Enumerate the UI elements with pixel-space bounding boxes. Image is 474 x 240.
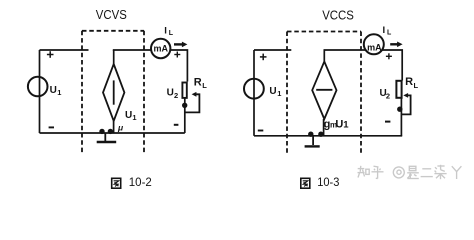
label gmU1 xyxy=(324,118,350,130)
svg-text:U: U xyxy=(167,88,174,99)
svg-text:1: 1 xyxy=(277,89,281,98)
丫 xyxy=(452,166,462,171)
voltage source U1 xyxy=(244,79,264,99)
polarity + of U1 xyxy=(47,51,54,58)
ammeter mA xyxy=(151,39,170,58)
ground xyxy=(305,136,320,147)
svg-text:VCVS: VCVS xyxy=(96,8,127,22)
svg-text:U: U xyxy=(335,118,343,130)
voltage-source bar inside diamond xyxy=(113,80,115,104)
乎 xyxy=(374,165,379,168)
二 xyxy=(422,168,431,170)
wire: input top (source to port) xyxy=(40,49,89,51)
svg-text:I: I xyxy=(164,26,167,37)
wire: bottom rail xyxy=(40,132,185,134)
wire: resistor bottom to bottom rail xyxy=(184,99,186,134)
polarity - of U1 xyxy=(49,126,54,128)
svg-text:R: R xyxy=(194,77,202,89)
@ xyxy=(393,167,404,178)
junction dot (U2 tap) xyxy=(397,107,402,112)
svg-text:2: 2 xyxy=(386,91,390,100)
wire: ammeter to top-right corner, down to resistor xyxy=(170,50,188,82)
polarity + of U1 xyxy=(260,54,267,61)
svg-text:U: U xyxy=(50,85,57,96)
label U1 (controlled source value) xyxy=(125,110,137,122)
polarity - of U2 xyxy=(385,121,390,123)
svg-text:1: 1 xyxy=(343,120,349,131)
dashed two-port box (VCCS network boundary) xyxy=(287,32,361,155)
wire: diamond top stub to node xyxy=(323,50,325,62)
ground xyxy=(97,133,117,142)
svg-text:U: U xyxy=(125,110,132,121)
ammeter mA xyxy=(364,34,384,54)
svg-text:10-3: 10-3 xyxy=(317,175,339,189)
label U2 xyxy=(380,88,391,100)
svg-text:10-2: 10-2 xyxy=(129,175,152,189)
wire: node to ammeter xyxy=(324,49,366,51)
wire: left vertical through source xyxy=(39,50,41,133)
svg-text:L: L xyxy=(202,81,207,90)
柒 xyxy=(435,167,437,169)
polarity - of U1 xyxy=(258,130,264,132)
svg-text:mA: mA xyxy=(153,44,168,54)
label U1 (source) xyxy=(269,86,281,98)
wire: diamond bottom stub xyxy=(323,119,325,136)
current arrow I_L xyxy=(390,42,402,48)
RL pointer arrow xyxy=(401,93,410,114)
voltage source U1 xyxy=(28,77,48,97)
controlled source (diamond, VCCS) xyxy=(312,62,336,120)
svg-text:I: I xyxy=(383,25,386,36)
junction dot (diamond bottom node) xyxy=(108,129,113,134)
current arrow I_L xyxy=(174,42,187,48)
label RL xyxy=(194,77,207,90)
svg-text:2: 2 xyxy=(174,91,178,100)
label U1 (source) xyxy=(50,85,62,97)
svg-text:U: U xyxy=(269,86,276,97)
wire: diamond top stub to node xyxy=(113,50,115,64)
polarity + of U2 xyxy=(386,53,392,59)
label I_L xyxy=(164,26,174,38)
wire: ammeter to top-right corner, down to resistor xyxy=(382,50,403,81)
wire: bottom rail xyxy=(254,135,402,137)
wire: resistor bottom to bottom rail xyxy=(400,98,402,136)
resistor RL xyxy=(396,81,401,98)
junction dot (ground node) xyxy=(308,132,313,137)
svg-text:L: L xyxy=(414,81,419,90)
RL pointer arrow xyxy=(186,92,200,113)
resistor RL xyxy=(182,83,186,98)
controlled source (diamond, VCVS) xyxy=(103,64,124,121)
junction dot (diamond bottom node) xyxy=(318,132,323,137)
是 xyxy=(409,166,416,170)
wire: input top (source to port) xyxy=(254,49,291,51)
caption 图 10-3 xyxy=(301,178,310,188)
svg-text:L: L xyxy=(387,30,392,37)
label I_L xyxy=(383,25,393,37)
svg-text:R: R xyxy=(405,76,413,88)
svg-text:1: 1 xyxy=(132,113,136,122)
label RL xyxy=(405,76,418,90)
svg-text:VCCS: VCCS xyxy=(322,8,354,22)
svg-text:1: 1 xyxy=(57,88,61,97)
junction dot (U2 tap) xyxy=(182,103,187,108)
polarity + of U2 xyxy=(174,52,180,58)
caption 图 10-2 xyxy=(112,178,121,188)
wire: node to ammeter xyxy=(113,49,152,51)
wire: left vertical through source xyxy=(253,50,255,136)
svg-text:mA: mA xyxy=(367,42,382,52)
current-source bar inside diamond xyxy=(316,89,332,91)
junction dot (ground node) xyxy=(99,129,104,134)
svg-text:μ: μ xyxy=(117,122,124,132)
dashed two-port box (VCVS network boundary) xyxy=(82,31,144,153)
polarity - of U2 xyxy=(174,124,179,126)
wire: diamond bottom stub xyxy=(113,121,115,133)
知 xyxy=(358,168,365,170)
watermark 知乎 @是二柒丫 xyxy=(358,165,462,179)
label U2 xyxy=(167,88,179,101)
svg-text:L: L xyxy=(169,30,174,37)
